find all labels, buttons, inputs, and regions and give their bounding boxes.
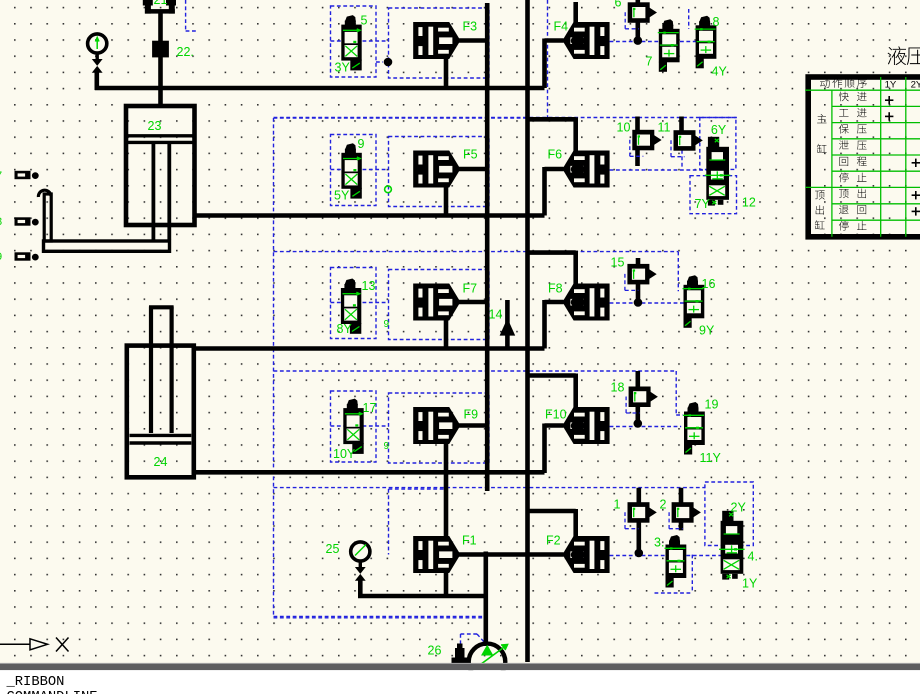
dashed group line row 4	[274, 370, 677, 372]
wire: valve 15 line	[636, 258, 641, 300]
table header	[820, 78, 830, 88]
wire: F9 tip to line A	[459, 423, 490, 428]
wire: check valve 14 line	[505, 300, 510, 349]
svg-text:12: 12	[742, 196, 756, 210]
pressure gauge 25 with shutoff valve	[351, 542, 370, 581]
solenoid pilot valve 17	[343, 399, 363, 454]
wire: valve 6 line	[635, 0, 640, 38]
wire: row 3 horizontal line to cylinder 24 top	[194, 346, 545, 351]
pilot line dashed	[610, 169, 707, 171]
svg-text:18: 18	[611, 381, 625, 395]
svg-text:6Y: 6Y	[711, 123, 727, 137]
command line area	[0, 670, 920, 694]
dashed group line row 2	[274, 117, 737, 119]
svg-text:24: 24	[154, 455, 168, 469]
svg-text:9: 9	[384, 319, 390, 330]
svg-text:F8: F8	[548, 282, 563, 296]
svg-text:6: 6	[615, 0, 622, 10]
svg-text:16: 16	[702, 277, 716, 291]
svg-text:F5: F5	[463, 148, 478, 162]
pilot line dashed	[610, 426, 682, 428]
wire: F5 tip to line A	[459, 167, 490, 172]
svg-text:9: 9	[358, 137, 365, 151]
svg-text:2Y: 2Y	[911, 79, 920, 90]
cartridge valve F4	[562, 22, 609, 59]
wire: valve 1 line	[636, 488, 641, 551]
wire: tank 21 to valve 22 to cylinder 23 inlet	[158, 13, 163, 107]
wire: F3 tip to line A	[459, 38, 490, 43]
svg-text:15: 15	[611, 256, 625, 270]
throttle valve 10	[630, 130, 662, 157]
svg-text:17: 17	[363, 401, 377, 415]
hydraulic cylinder 24 (ejector)	[127, 307, 194, 478]
pilot line dashed	[610, 555, 721, 557]
wire: line B branch to F4	[528, 117, 576, 122]
group box around valve F1	[388, 489, 390, 555]
dashed group line row 3	[274, 251, 679, 253]
solenoid pilot valve 19	[683, 402, 705, 455]
svg-text:8: 8	[0, 216, 2, 228]
dashed line above pump	[274, 617, 485, 619]
table row labels	[839, 92, 849, 102]
svg-text:2: 2	[660, 498, 667, 512]
directional valve 12	[705, 137, 731, 206]
wire: F7 tip to line A	[459, 300, 490, 305]
svg-text:5: 5	[361, 14, 368, 28]
wire: valve 10 line	[635, 117, 640, 167]
group box around valve F7	[389, 270, 490, 340]
plugged port dots	[634, 36, 643, 45]
wire: row 1 horizontal main line	[95, 86, 545, 91]
wire: F8 tip wire and drop	[545, 300, 564, 305]
throttle valve 15	[625, 264, 657, 291]
svg-text:F9: F9	[464, 408, 479, 422]
solenoid pilot valve 3	[665, 535, 687, 588]
svg-text:F1: F1	[462, 534, 477, 548]
throttle valve 6	[625, 2, 657, 29]
wire: pump outlet riser	[483, 552, 488, 647]
solenoid pilot valve 7	[658, 19, 680, 72]
wire: pilot supply line A vertical	[485, 3, 490, 491]
table title	[888, 46, 907, 65]
group box around pilot valve row 2	[331, 135, 377, 206]
wire: line B branch to F2	[528, 509, 576, 514]
wire: row 2 horizontal line from cylinder 23	[195, 213, 545, 218]
svg-text:10: 10	[617, 121, 631, 135]
svg-text:7Y: 7Y	[695, 197, 711, 211]
solenoid pilot valve 5	[341, 15, 361, 70]
solenoid pilot valve 13	[341, 279, 361, 334]
svg-text:8: 8	[713, 15, 720, 29]
throttle valve 1	[625, 502, 657, 529]
cartridge valve F2	[562, 536, 609, 573]
svg-text:7: 7	[0, 170, 2, 182]
wire: valve 18 line	[635, 371, 640, 422]
dashed selection near 21	[185, 0, 187, 31]
wire: line B branch to F6	[528, 250, 576, 255]
dashed connectors row 5	[691, 555, 693, 593]
svg-text:F3: F3	[463, 20, 478, 34]
dashed pilot below valve 11	[681, 150, 683, 168]
svg-text:7: 7	[646, 55, 653, 69]
UCS icon	[0, 638, 69, 652]
wire: gauge 22 stem	[95, 73, 100, 91]
wire: F1 top feed from row 4 line	[444, 473, 449, 537]
svg-text:8Y: 8Y	[337, 322, 353, 336]
svg-text:F4: F4	[554, 20, 569, 34]
check valve 14 arrowhead	[500, 318, 516, 335]
wire: F1-F2 tip wire	[456, 552, 564, 557]
wire: main vertical line B	[525, 0, 530, 662]
svg-text:13: 13	[362, 279, 376, 293]
wire: gauge 25 stem	[358, 580, 363, 596]
solenoid pilot valve 9	[341, 143, 361, 198]
wire: F6 tip wire and drop	[545, 167, 564, 172]
limit switch 1	[15, 171, 39, 179]
svg-text:F6: F6	[548, 148, 563, 162]
status bar	[0, 663, 920, 670]
wire: line B branch to F8	[528, 373, 576, 378]
svg-text:14: 14	[489, 308, 503, 322]
wire: F10 tip wire and drop	[545, 423, 564, 428]
svg-text:3Y: 3Y	[335, 61, 351, 75]
svg-text:9: 9	[384, 441, 390, 452]
wire: row 5 horizontal line	[358, 594, 488, 599]
group box around pilot valve row 1	[331, 6, 377, 77]
group box around pilot valve row 4	[331, 391, 377, 462]
svg-text:11: 11	[658, 121, 671, 135]
valve 22 block	[152, 41, 169, 58]
svg-text:26: 26	[428, 644, 442, 658]
dashed connectors row 1	[688, 9, 690, 29]
cartridge valve F5	[413, 151, 460, 188]
wire: left valve bottom drop row 1	[444, 59, 449, 89]
throttle valve 11	[671, 130, 703, 157]
svg-text:1Y: 1Y	[885, 79, 897, 90]
throttle valve 18	[626, 387, 658, 414]
svg-text:4.: 4.	[748, 550, 758, 564]
group box around valve F5	[389, 137, 490, 207]
motor block left of pump	[452, 644, 469, 664]
group box around valve F3	[389, 8, 490, 78]
table plus marks	[885, 96, 920, 216]
wire: row 4 horizontal line from cylinder 24 bottom	[194, 470, 545, 475]
svg-text:4Y: 4Y	[712, 65, 728, 79]
wire: F4 feed from top	[573, 2, 578, 23]
sequence table	[808, 77, 920, 237]
dashed group line row 5	[274, 487, 705, 489]
press platen on cylinder 23 rod	[38, 190, 169, 251]
group box around valve 4	[705, 482, 753, 546]
svg-text:9Y: 9Y	[699, 324, 715, 338]
svg-text:F10: F10	[545, 408, 567, 422]
green grip ring	[385, 186, 392, 193]
directional valve 4	[719, 511, 745, 580]
solenoid pilot valve 16	[683, 275, 705, 328]
svg-text:F7: F7	[463, 282, 478, 296]
svg-text:3.: 3.	[654, 536, 664, 550]
wire: left valve bottom drop row 4	[444, 444, 449, 474]
group box around valve F9	[389, 393, 490, 463]
pressure gauge with shutoff valve (top left)	[88, 34, 107, 73]
svg-text:25: 25	[326, 542, 340, 556]
wire: F4 tip wire and drop	[545, 38, 564, 43]
svg-text:COMMANDLINE: COMMANDLINE	[7, 690, 98, 694]
svg-text:21: 21	[154, 0, 168, 7]
svg-text:2Y: 2Y	[731, 501, 747, 515]
limit switch 2	[15, 217, 39, 225]
svg-text:23: 23	[148, 119, 162, 133]
svg-text:_RIBBON: _RIBBON	[6, 675, 65, 690]
wire: valve 11 line	[679, 117, 684, 150]
cartridge valve F8	[562, 284, 609, 321]
svg-text:9: 9	[0, 251, 2, 263]
cartridge valve F6	[562, 151, 609, 188]
cartridge valve F1	[413, 536, 460, 573]
pilot line dashed	[610, 41, 697, 43]
cartridge valve F9	[413, 407, 460, 444]
throttle valve 2	[669, 502, 701, 529]
svg-text:10Y: 10Y	[333, 447, 356, 461]
cartridge valve F7	[413, 284, 460, 321]
svg-text:1: 1	[614, 498, 621, 512]
svg-text:5Y: 5Y	[334, 189, 350, 203]
group outline: main dashed box rows 2-5	[273, 118, 275, 617]
svg-text:F2: F2	[546, 534, 561, 548]
tank symbol 21	[143, 0, 176, 14]
solenoid pilot valve 8	[695, 16, 717, 69]
pilot line dashed	[610, 302, 684, 304]
svg-text:19: 19	[705, 398, 719, 412]
wire: left valve bottom drop row 5	[444, 573, 449, 597]
hydraulic cylinder 23 (main ram)	[126, 106, 195, 240]
svg-text:1Y: 1Y	[742, 577, 758, 591]
group box around pilot valve row 3	[331, 268, 377, 339]
wire: left valve bottom drop row 3	[444, 320, 449, 349]
svg-text:22.: 22.	[177, 45, 194, 59]
group outline: vertical dashed segment top	[547, 0, 549, 118]
svg-text:11Y: 11Y	[700, 451, 722, 465]
pump 26	[469, 644, 506, 681]
group box around valve 12	[700, 118, 736, 170]
cartridge valve F3	[413, 22, 460, 59]
wire: left valve bottom drop row 2	[444, 187, 449, 216]
wire: valve 2 line	[679, 488, 684, 531]
cartridge valve F10	[562, 407, 609, 444]
limit switch 3	[15, 252, 39, 260]
